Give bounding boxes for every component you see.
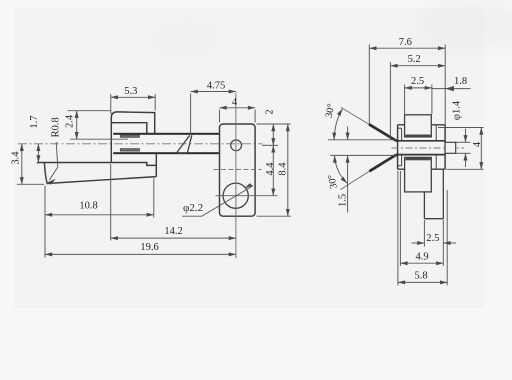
dimension 19.6 [45,253,236,255]
centerline (right view) [392,147,465,149]
svg-text:φ2.2: φ2.2 [183,202,203,214]
inner channel wall lines [398,125,437,169]
svg-text:1.7: 1.7 [29,115,40,128]
dimension 1.8 [432,86,471,91]
dimension 3.4 (far left) [17,144,44,185]
svg-text:1.5: 1.5 [338,194,349,207]
svg-text:2.5: 2.5 [426,233,439,244]
dimension 5.2 [390,62,445,138]
dimension 7.6 [369,45,445,125]
svg-text:R0.8: R0.8 [50,117,61,137]
vertical center / extension line through block [235,93,237,258]
upper contact hatch plate [120,135,139,138]
dimension 2.5 (bottom) [412,220,457,247]
leader phi 2.2 [182,183,253,216]
svg-text:2.4: 2.4 [65,114,76,128]
dimension 1.5 [347,127,349,213]
angle dim 30 upper [334,109,343,140]
block (right body, left view) [220,124,256,216]
angle reference line lower [331,154,397,156]
dimension 5.8 [398,171,447,285]
dimension phi 1.4 [456,129,471,168]
dimension 2.5 (top) [405,85,432,115]
lower contact bar (thick) [113,152,219,154]
dimension 4.75 [191,92,236,135]
lower crimp wing [405,157,432,192]
dimension 1.7 [37,144,39,163]
upper contact bar (thick) [113,133,219,135]
lower contact hatch plate [120,149,139,152]
svg-text:5.8: 5.8 [414,271,427,282]
outer channel box [398,125,446,169]
angle dim 30 lower [335,155,348,183]
svg-text:2: 2 [265,109,276,114]
dimension 2.4 [68,111,129,140]
dimension 10.8 [45,178,154,257]
dimension 4 (right view height) [438,128,484,170]
svg-text:5.2: 5.2 [408,54,421,65]
pin stub (phi1.4 end) [445,142,456,153]
dimension 8.4 (vertical) [257,124,292,216]
dimension 4 (block width) [220,108,256,123]
svg-text:4: 4 [472,141,483,147]
small hole circle [231,140,242,151]
fork outline (upper arm) [111,112,154,163]
svg-text:5.3: 5.3 [124,86,137,97]
main centerline (pin axis, left view) [18,143,263,145]
barb (lance) on shaft [177,135,192,153]
svg-text:φ1.4: φ1.4 [452,100,463,120]
svg-text:10.8: 10.8 [79,200,97,211]
svg-text:14.2: 14.2 [164,226,182,237]
central bar edges [398,141,446,155]
svg-text:4.75: 4.75 [207,81,225,92]
solder tail (rear) [424,169,443,219]
svg-text:4.9: 4.9 [415,251,428,262]
svg-text:4: 4 [232,97,238,108]
angle reference line upper [328,139,397,141]
upper crimp wing [405,115,432,137]
svg-text:4.4: 4.4 [265,162,276,176]
svg-text:3.4: 3.4 [11,151,22,165]
dimension 5.3 [111,94,155,114]
svg-text:19.6: 19.6 [140,242,158,253]
svg-text:2.5: 2.5 [411,76,424,87]
leader R0.8 [48,142,58,185]
dimension 2 (vertical) [257,124,291,145]
lower flare wing (thick) [340,155,397,190]
svg-text:8.4: 8.4 [278,162,289,176]
big hole circle (phi 2.2) [223,183,248,208]
upper flare wing (thick) [341,107,398,140]
fork lower arm and wedge blade [37,153,157,184]
faint scan smudges [151,0,512,53]
dimension 4.4 (vertical) [272,145,274,195]
dimension 4.9 [400,171,443,266]
block dashed mid line [214,169,262,171]
big circle horizontal center mark [216,195,278,197]
dimension 14.2 [111,164,236,241]
svg-text:7.6: 7.6 [399,37,412,48]
svg-text:1.8: 1.8 [454,76,467,87]
